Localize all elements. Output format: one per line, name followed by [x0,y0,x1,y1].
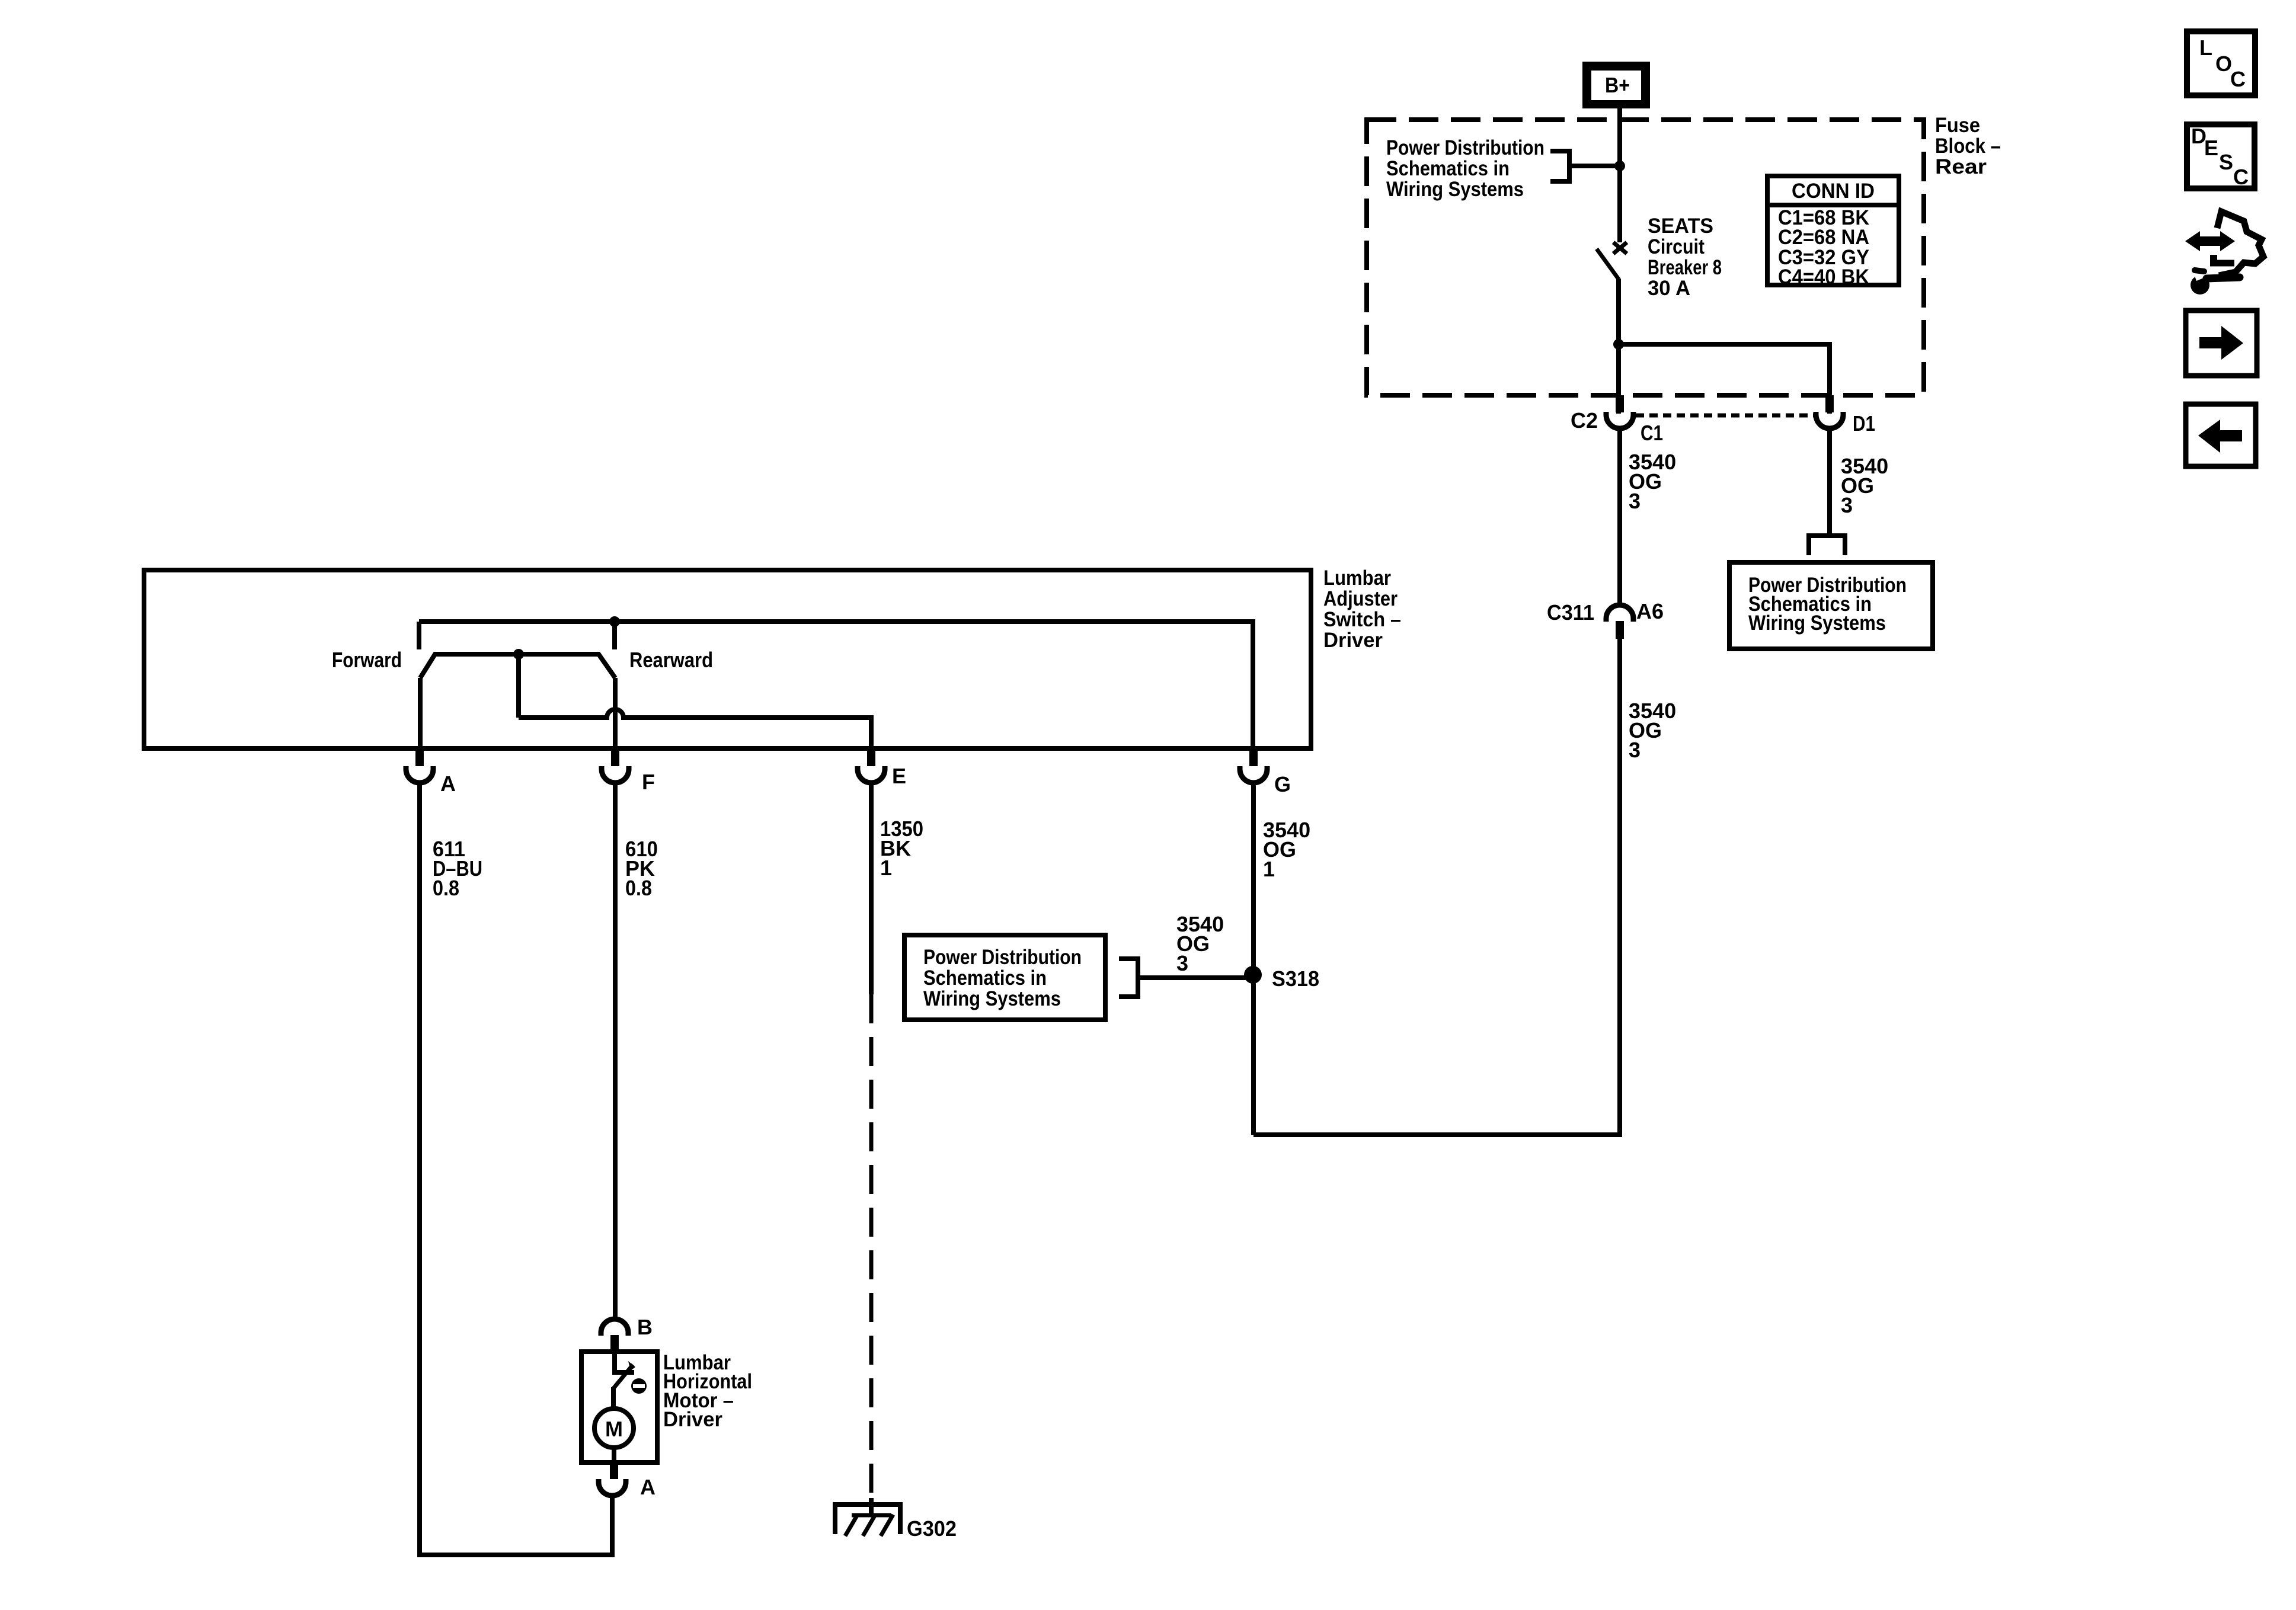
svg-text:G: G [1274,772,1291,796]
svg-text:Schematics in: Schematics in [923,966,1047,990]
wire: F down to motor B [613,783,618,1319]
wire label: 3540 OG 3 (above S318) [1176,912,1224,975]
svg-text:S318: S318 [1272,966,1319,991]
circuit breaker arm [1597,249,1619,279]
svg-text:B: B [637,1315,653,1339]
node: junction dot on B+ feed [1614,161,1625,171]
icon: LOC button [2187,31,2255,95]
wire label: 3540 OG 3 (below C311) [1629,699,1676,762]
motor M circle [594,1409,634,1448]
bracket right of mid reference box [1119,959,1138,997]
svg-text:3: 3 [1629,738,1641,762]
motor internal breaker: arm tip [628,1361,635,1371]
wire: bracket to S318 [1138,975,1248,980]
double-headed arrow [2185,231,2235,251]
splice S318 [1244,966,1262,984]
lower bar with tab [2210,260,2234,267]
svg-text:CONN ID: CONN ID [1792,180,1875,203]
fuse block - rear dashed box [1367,120,1924,395]
svg-text:30 A: 30 A [1648,277,1690,300]
label: Lumbar Horizontal Motor - Driver [663,1351,752,1431]
icon: next arrow button [2186,311,2257,376]
connector B (motor) : socket arc (opens down) [601,1319,628,1336]
svg-text:Forward: Forward [332,648,402,672]
bracket above right reference box [1809,536,1845,555]
connector E (switch) : socket arc [858,766,885,783]
svg-text:C1: C1 [1641,421,1663,445]
connector F (switch) : pin stub [611,748,619,766]
wire: junction 2 across to D1 [1619,344,1830,414]
node: junction dot on arm [513,649,524,660]
svg-text:A6: A6 [1636,599,1664,623]
wire: E down (solid part) [869,783,874,994]
svg-text:Adjuster: Adjuster [1323,587,1398,610]
svg-text:E: E [892,764,906,788]
svg-text:Wiring Systems: Wiring Systems [923,987,1061,1010]
connector G (switch) : socket arc [1240,766,1267,783]
wire label: 3540 OG 1 [1263,818,1310,881]
svg-text:Rearward: Rearward [629,648,713,672]
node: junction dot 2 (breaker output) [1613,339,1624,350]
svg-text:0.8: 0.8 [625,876,652,900]
svg-text:S: S [2219,150,2233,174]
connector D1 : pin stub [1825,395,1834,412]
svg-text:Power Distribution: Power Distribution [1386,136,1544,159]
svg-text:3: 3 [1841,493,1853,517]
svg-text:Switch –: Switch – [1323,608,1401,631]
lumbar horizontal motor - driver box [581,1352,657,1462]
wire: arm left leg down to A [418,678,423,748]
motor internal breaker: arm to motor [611,1387,616,1409]
switch common feed line (from G) [419,622,1253,748]
svg-text:1: 1 [880,856,892,880]
connector A (switch) : pin stub [415,748,424,766]
wire B+ down to circuit breaker [1617,108,1622,242]
svg-text:Block –: Block – [1935,135,2001,158]
svg-text:Lumbar: Lumbar [1323,566,1391,590]
contact stub: Rearward [612,622,617,649]
svg-text:B+: B+ [1605,73,1630,97]
connector D1 : socket arc [1816,412,1843,428]
wire: motor to box bottom [612,1448,616,1462]
motor internal breaker: feed and fixed contact [615,1352,634,1372]
svg-text:3: 3 [1629,489,1641,513]
wrench [2191,276,2209,295]
svg-text:A: A [640,1475,655,1499]
svg-text:Driver: Driver [1323,629,1383,652]
wire: D1 down to reference bracket [1827,428,1832,536]
wire: arm right leg down to F [613,678,618,748]
node: junction dot on common line [609,616,620,627]
svg-text:SEATS: SEATS [1648,215,1713,238]
icon: service/adjust (double arrow, component outline, wrench) [2185,212,2263,295]
thermal protector symbol [631,1378,647,1394]
svg-text:Fuse: Fuse [1935,114,1980,137]
ground G302 [835,1498,900,1536]
svg-text:0.8: 0.8 [433,876,459,900]
svg-text:Breaker 8: Breaker 8 [1648,256,1722,279]
connector B (motor) : pin stub [610,1335,619,1352]
svg-text:O: O [2215,52,2232,76]
wire: C1 down to C311 [1617,428,1622,605]
switch movable bridge arm [420,654,615,678]
wire: bracket to B+ feed [1569,164,1620,168]
svg-text:Power Distribution: Power Distribution [923,946,1082,969]
svg-text:Circuit: Circuit [1648,235,1705,258]
svg-text:D1: D1 [1853,411,1875,436]
icon: DESC button [2187,124,2255,189]
connector C311/A6 : pin stub [1616,621,1624,639]
svg-text:C: C [2230,67,2246,91]
bracket for power distribution reference (fuse block) [1550,151,1569,181]
svg-text:3: 3 [1176,951,1188,975]
label: Fuse Block - Rear [1935,114,2001,178]
connector C2/C1 : pin stub [1616,395,1624,412]
svg-text:C4=40 BK: C4=40 BK [1778,265,1869,289]
wire: junction 2 down to C1 [1616,344,1621,414]
wire: arm tap across to E with hop over F wire [519,709,871,748]
svg-text:M: M [605,1417,623,1441]
motor internal breaker: arm [613,1365,633,1388]
svg-text:1: 1 [1263,857,1275,881]
wire label: 3540 OG 3 (C1 drop) [1629,450,1676,513]
connector joining dashed line C2 to D1 [1636,414,1815,418]
wire: arm tap down [516,654,521,718]
wire: A down and across to motor A [420,783,612,1555]
connector G (switch) : pin stub [1249,748,1258,766]
svg-text:F: F [642,770,655,794]
connector F (switch) : socket arc [602,766,629,783]
wire label: 611 D-BU 0.8 [433,837,482,900]
svg-text:G302: G302 [907,1516,957,1541]
wire: E down (dashed part) to G302 [869,994,874,1505]
wire: G connector down through S318 to bottom corner [1251,783,1256,1135]
svg-text:Driver: Driver [663,1408,722,1431]
label: SEATS Circuit Breaker 8 30 A [1648,215,1722,300]
connector A (motor) : socket arc [599,1479,626,1496]
svg-text:Wiring Systems: Wiring Systems [1748,612,1886,635]
reference text: Power Distribution Schematics in Wiring Systems (inside fuse block) [1386,136,1544,201]
svg-text:A: A [440,772,456,796]
wire: C311 down, across bottom, up to S318 leg [1253,639,1620,1135]
lumbar adjuster switch - driver box [144,570,1311,748]
connector E (switch) : pin stub [867,748,875,766]
svg-text:Wiring Systems: Wiring Systems [1386,178,1524,201]
reference box right: Power Distribution Schematics in Wiring Systems [1729,562,1933,649]
label: Lumbar Adjuster Switch - Driver [1323,566,1401,652]
svg-text:C311: C311 [1547,600,1594,625]
B+ power terminal [1582,62,1650,108]
svg-text:Rear: Rear [1935,155,1987,178]
contact stub: Forward [417,622,421,649]
icon: back arrow button [2186,404,2256,466]
connector A (motor) : pin stub [610,1462,618,1479]
svg-text:E: E [2204,136,2218,160]
wire label: 610 PK 0.8 [625,837,658,900]
CONN ID table [1767,176,1899,289]
svg-text:C: C [2233,165,2249,189]
component outline [2217,212,2263,276]
svg-text:L: L [2199,36,2212,60]
wire label: 1350 BK 1 [880,817,923,880]
wire: breaker arm down to junction 2 [1616,279,1621,344]
wire label: 3540 OG 3 (D1 drop) [1841,454,1888,517]
connector C311/A6 : socket arc (opens down) [1606,605,1633,622]
circuit breaker 8 (SEATS 30A): X contact mark [1613,242,1627,254]
reference box mid: Power Distribution Schematics in Wiring Systems [904,935,1105,1020]
svg-text:Schematics in: Schematics in [1386,157,1510,180]
connector A (switch) : socket arc [406,766,433,783]
svg-text:C2: C2 [1571,408,1598,433]
connector C2/C1 : socket arc [1606,412,1633,428]
